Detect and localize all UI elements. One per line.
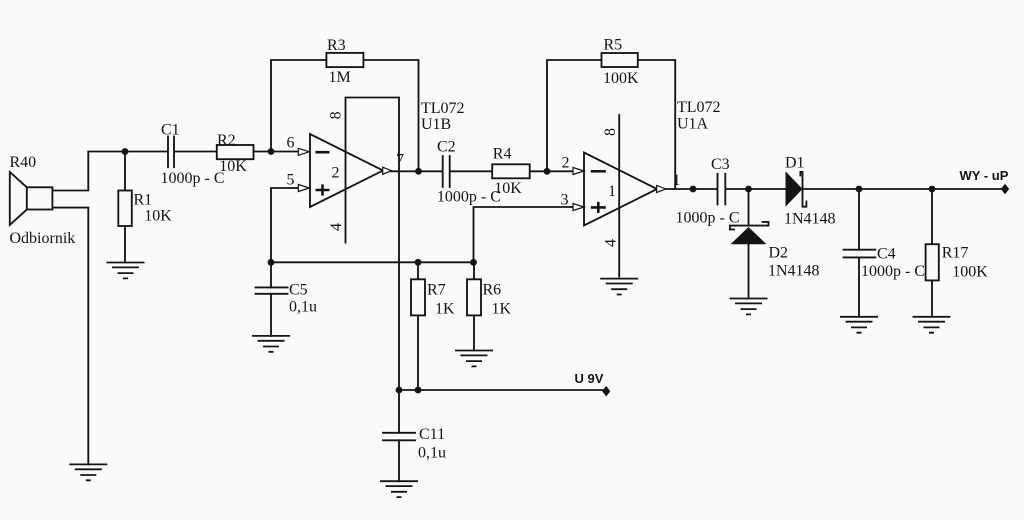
svg-text:8: 8 — [327, 111, 344, 119]
svg-text:4: 4 — [603, 239, 620, 247]
svg-text:WY - uP: WY - uP — [960, 168, 1009, 183]
svg-text:1K: 1K — [492, 301, 512, 318]
svg-text:1K: 1K — [435, 301, 455, 318]
svg-text:D2: D2 — [769, 245, 789, 262]
svg-text:1: 1 — [608, 183, 616, 200]
svg-text:1000p - C: 1000p - C — [437, 188, 501, 205]
svg-text:R2: R2 — [217, 132, 236, 149]
svg-text:0,1u: 0,1u — [418, 445, 446, 462]
svg-text:C5: C5 — [289, 281, 308, 298]
svg-text:8: 8 — [602, 128, 619, 136]
svg-text:TL072: TL072 — [421, 100, 465, 117]
svg-text:10K: 10K — [144, 208, 172, 225]
svg-text:6: 6 — [287, 134, 295, 151]
svg-text:R6: R6 — [483, 282, 502, 299]
svg-text:1000p - C: 1000p - C — [861, 263, 925, 280]
svg-text:R40: R40 — [10, 154, 37, 171]
svg-text:10K: 10K — [219, 158, 247, 175]
svg-text:R17: R17 — [942, 245, 969, 262]
svg-text:3: 3 — [561, 191, 569, 208]
svg-text:5: 5 — [287, 172, 295, 189]
svg-text:2: 2 — [332, 164, 340, 181]
svg-text:R5: R5 — [604, 37, 623, 54]
svg-text:1M: 1M — [329, 69, 351, 86]
svg-text:10K: 10K — [494, 180, 522, 197]
svg-text:R1: R1 — [134, 191, 153, 208]
svg-text:R7: R7 — [427, 282, 446, 299]
svg-text:1N4148: 1N4148 — [768, 263, 820, 280]
svg-text:TL072: TL072 — [677, 99, 721, 116]
svg-text:C11: C11 — [419, 426, 445, 443]
svg-text:0,1u: 0,1u — [289, 299, 317, 316]
svg-text:C4: C4 — [877, 246, 896, 263]
svg-text:C3: C3 — [711, 156, 730, 173]
svg-text:D1: D1 — [785, 154, 805, 171]
svg-text:Odbiornik: Odbiornik — [10, 230, 76, 247]
svg-text:7: 7 — [396, 152, 404, 169]
svg-text:1000p - C: 1000p - C — [676, 210, 740, 227]
svg-text:4: 4 — [328, 223, 345, 231]
svg-text:U1A: U1A — [677, 115, 709, 132]
svg-text:100K: 100K — [952, 263, 988, 280]
svg-text:100K: 100K — [603, 70, 639, 87]
svg-text:C1: C1 — [161, 122, 180, 139]
svg-text:1N4148: 1N4148 — [784, 210, 836, 227]
svg-text:1000p - C: 1000p - C — [161, 170, 225, 187]
svg-text:U 9V: U 9V — [575, 371, 604, 386]
svg-text:U1B: U1B — [421, 116, 451, 133]
svg-text:1: 1 — [673, 172, 681, 189]
svg-text:C2: C2 — [437, 138, 456, 155]
svg-text:R4: R4 — [493, 146, 512, 163]
svg-text:2: 2 — [562, 154, 570, 171]
svg-text:R3: R3 — [327, 37, 346, 54]
